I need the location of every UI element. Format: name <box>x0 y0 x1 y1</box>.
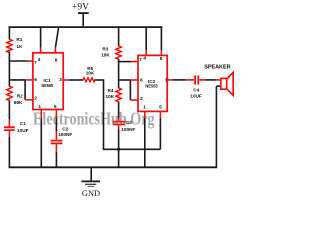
svg-text:6: 6 <box>34 77 37 83</box>
svg-text:5: 5 <box>54 104 57 110</box>
svg-text:C4: C4 <box>193 88 199 93</box>
svg-text:2: 2 <box>140 96 143 102</box>
svg-text:R4: R4 <box>108 88 114 93</box>
svg-text:C2: C2 <box>62 126 68 131</box>
svg-text:6: 6 <box>140 78 143 84</box>
svg-text:1: 1 <box>38 104 41 110</box>
svg-text:8: 8 <box>55 57 58 63</box>
svg-text:2: 2 <box>34 96 37 102</box>
svg-text:10K: 10K <box>106 94 115 99</box>
svg-text:10UF: 10UF <box>17 128 29 133</box>
svg-text:7: 7 <box>34 60 37 66</box>
svg-text:1K: 1K <box>16 44 23 49</box>
svg-text:10K: 10K <box>86 70 95 75</box>
svg-text:C3: C3 <box>126 120 132 125</box>
svg-text:R3: R3 <box>102 46 108 51</box>
svg-text:SPEAKER: SPEAKER <box>204 65 230 71</box>
svg-text:8: 8 <box>160 56 163 62</box>
svg-text:4: 4 <box>143 55 146 61</box>
svg-text:R2: R2 <box>17 93 23 98</box>
svg-text:100NF: 100NF <box>121 127 135 132</box>
svg-text:+9V: +9V <box>72 3 89 13</box>
svg-text:3: 3 <box>59 77 62 83</box>
svg-text:68K: 68K <box>14 100 23 105</box>
svg-text:3: 3 <box>165 77 168 83</box>
svg-text:GND: GND <box>82 189 100 198</box>
svg-text:NE555: NE555 <box>41 83 53 88</box>
svg-text:4: 4 <box>38 57 41 63</box>
svg-text:NE555: NE555 <box>145 84 158 89</box>
svg-text:C1: C1 <box>20 121 26 126</box>
svg-text:ElectronicsHub.Org: ElectronicsHub.Org <box>33 108 155 128</box>
svg-text:7: 7 <box>139 57 142 63</box>
svg-text:100NF: 100NF <box>58 132 72 137</box>
svg-text:10K: 10K <box>101 52 110 57</box>
svg-text:5: 5 <box>159 105 162 111</box>
svg-text:10UF: 10UF <box>190 94 202 99</box>
svg-text:R1: R1 <box>16 37 22 42</box>
svg-text:1: 1 <box>143 104 146 110</box>
